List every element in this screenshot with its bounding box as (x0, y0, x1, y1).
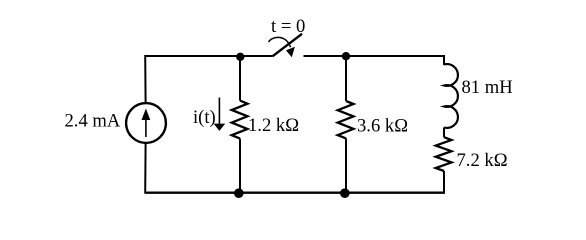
wire inductor to resistor R3 (443, 128, 445, 138)
wire resistor R1 bottom lead (239, 139, 241, 193)
node bottom dot right (340, 188, 350, 198)
node B top dot (342, 52, 350, 60)
wire resistor R2 top lead (345, 56, 347, 101)
wire top-left horizontal (145, 55, 273, 57)
svg-text:t = 0: t = 0 (271, 16, 305, 37)
node A top dot (236, 53, 244, 61)
svg-text:i(t): i(t) (193, 107, 216, 128)
wire resistor R2 bottom lead (345, 138, 347, 193)
switch SW1 arc arrow head (286, 47, 295, 58)
resistor R2 3.6k zigzag (338, 101, 354, 138)
resistor R1 1.2k zigzag (232, 101, 248, 139)
svg-text:7.2 kΩ: 7.2 kΩ (457, 150, 508, 171)
current source I1 arrow head (142, 109, 151, 121)
wire resistor R1 top lead (239, 56, 241, 101)
wire resistor R3 bottom lead (443, 171, 445, 194)
wire bottom horizontal (145, 192, 445, 194)
switch SW1 actuation arc (269, 37, 291, 47)
current source I1 circle (126, 103, 166, 143)
current source I1 arrow shaft (145, 116, 147, 137)
node bottom dot left (234, 188, 244, 198)
wire right branch top lead (443, 55, 445, 65)
svg-text:1.2 kΩ: 1.2 kΩ (248, 115, 299, 136)
current arrow i(t) shaft (218, 98, 220, 126)
current arrow i(t) head (214, 124, 226, 131)
resistor R3 7.2k zigzag (436, 137, 452, 171)
svg-text:3.6 kΩ: 3.6 kΩ (357, 116, 408, 137)
wire top-right horizontal (304, 55, 445, 57)
svg-text:2.4 mA: 2.4 mA (65, 111, 121, 132)
wire left branch upper (144, 55, 146, 103)
wire left branch lower (144, 143, 146, 193)
switch SW1 blade (273, 34, 303, 57)
inductor L1 coil (444, 64, 458, 128)
svg-text:81 mH: 81 mH (462, 77, 513, 98)
